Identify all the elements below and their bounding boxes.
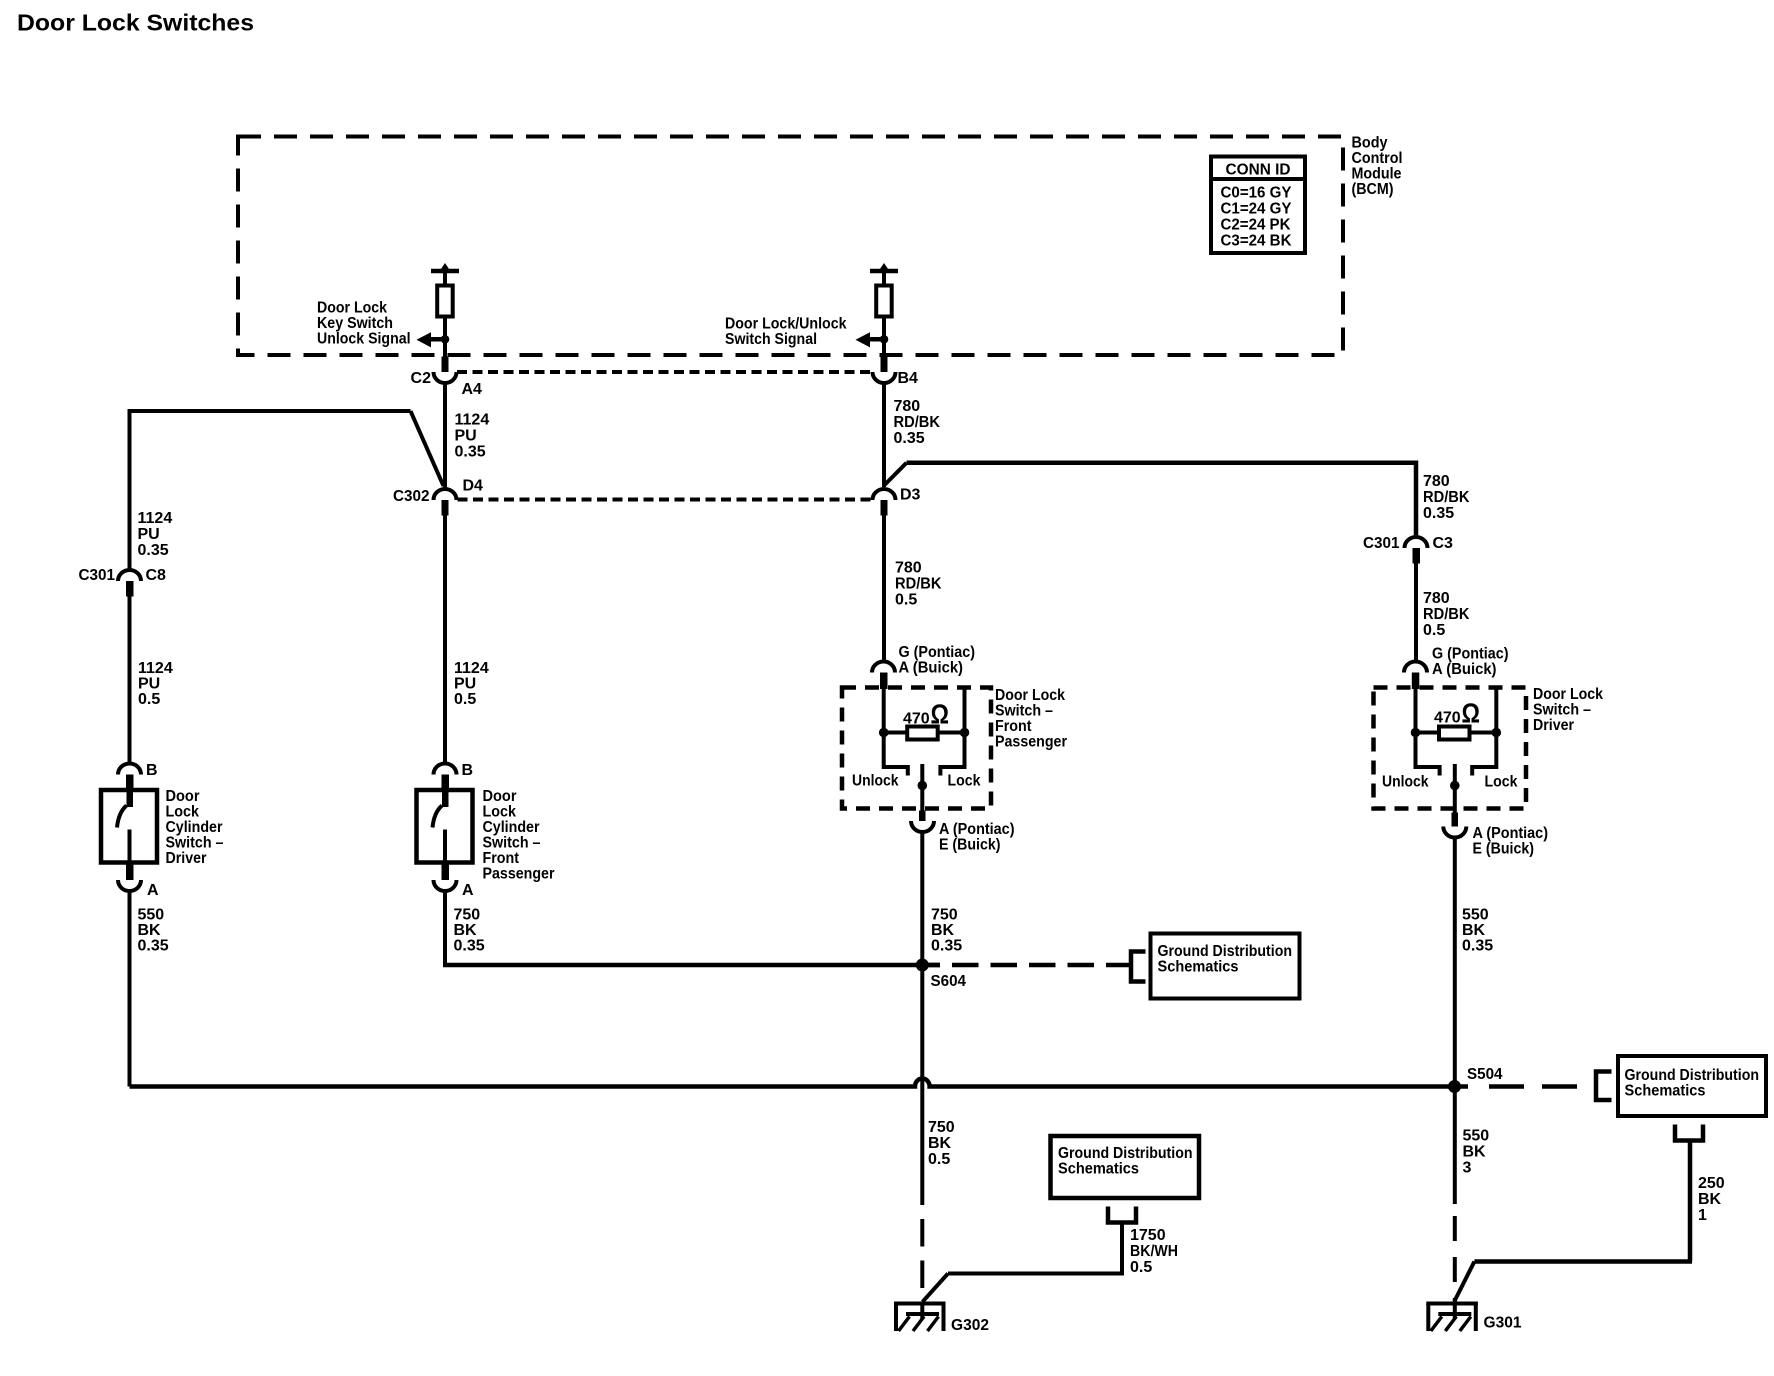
svg-text:PU: PU [455,428,477,445]
label: circuit 780 RD/BK 0.5 (middle column) [895,560,942,609]
wire: harness connector pass-through (dotted, bottom) [458,498,873,502]
svg-text:G301: G301 [1484,1315,1522,1332]
label: 470 ohm (driver switch) [1434,698,1480,729]
svg-text:470: 470 [1434,710,1461,727]
connector C2 pin B4 (BCM side) [873,357,919,388]
svg-text:Lock: Lock [948,773,981,790]
connector C302 pin D4 [393,478,483,516]
svg-text:1124: 1124 [455,412,490,429]
svg-text:Door Lock: Door Lock [995,687,1065,704]
splice S504 (junction dot) [1448,1066,1503,1093]
svg-text:0.35: 0.35 [138,542,169,559]
connector: passenger cylinder switch pin B [434,762,474,790]
svg-text:C2: C2 [411,370,432,387]
svg-text:Door: Door [483,788,517,805]
svg-text:0.35: 0.35 [1462,938,1493,955]
svg-text:C302: C302 [393,488,430,505]
svg-text:RD/BK: RD/BK [1423,489,1470,506]
svg-text:0.5: 0.5 [895,592,917,609]
svg-text:BK: BK [1463,1144,1487,1161]
svg-text:Switch –: Switch – [166,835,224,852]
svg-text:0.35: 0.35 [454,938,485,955]
ground G302 [894,1302,989,1335]
svg-text:A4: A4 [462,381,483,398]
svg-text:750: 750 [928,1119,955,1136]
svg-text:Schematics: Schematics [1625,1083,1706,1100]
label: circuit 250 BK 1 [1698,1175,1725,1224]
label: Door Lock Switch - Front Passenger [995,687,1067,751]
svg-text:A: A [462,882,474,899]
switch S1: Door Lock Cylinder Switch - Driver [101,790,157,864]
svg-text:E (Buick): E (Buick) [939,837,1001,854]
label: Door Lock Key Switch Unlock Signal [317,300,411,348]
svg-text:RD/BK: RD/BK [1423,606,1470,623]
label: Door Lock/Unlock Switch Signal [725,316,847,349]
svg-text:Module: Module [1352,166,1402,183]
wire: dashed reference from S604 to Ground Distribution Schematics [922,952,1145,982]
svg-text:Front: Front [995,718,1032,735]
label: Door Lock Cylinder Switch - Driver [166,788,224,867]
svg-text:Unlock: Unlock [852,773,899,790]
switch contacts: Unlock / Lock (driver) [1416,733,1497,814]
wire: 550 BK from driver switch A/E to splice S504 and below [1453,838,1457,1204]
svg-text:250: 250 [1698,1175,1725,1192]
wire: 550 BK from cylinder switch A to G302 ground run [128,891,132,1087]
connector C301 pin C8 [79,567,167,597]
svg-text:BK/WH: BK/WH [1130,1243,1178,1260]
svg-text:PU: PU [138,526,160,543]
resistor R2 (BCM internal, lock/unlock switch signal) [870,263,898,357]
connector: off-page connector below S504 Ground Distribution box [1454,1125,1703,1302]
wire: dashed 550 BK 3 from S504 down to ground G301 [1453,1216,1457,1319]
label: Unlock / Lock (driver) [1382,774,1518,791]
svg-text:BK: BK [1462,922,1486,939]
wire: ground bus from driver cylinder switch to S504 (with hop over 750 BK) [130,1079,1469,1087]
svg-text:C0=16 GY: C0=16 GY [1221,185,1292,202]
svg-text:0.5: 0.5 [928,1151,950,1168]
svg-text:Lock: Lock [483,804,517,821]
connector C301 pin C3 (right column) [1363,535,1453,564]
label: Unlock / Lock (passenger) [852,773,981,790]
svg-text:Passenger: Passenger [995,734,1067,751]
label: circuit 1124 PU 0.35 (upper middle) [455,412,490,461]
svg-text:Passenger: Passenger [483,866,555,883]
svg-text:RD/BK: RD/BK [895,576,942,593]
svg-text:470: 470 [903,711,930,728]
wire: harness connector pass-through (dotted, top) [457,370,872,374]
label: circuit 1124 PU 0.5 (left column) [138,660,173,708]
svg-text:Control: Control [1352,150,1403,167]
ground G301 [1426,1302,1478,1332]
svg-text:3: 3 [1463,1160,1472,1177]
svg-text:0.35: 0.35 [1423,505,1454,522]
svg-text:Driver: Driver [1533,717,1574,734]
svg-text:C8: C8 [146,567,167,584]
wire: 1124 PU from C301 C8 to cylinder switch B [128,596,132,764]
table: CONN ID [1211,157,1305,254]
label: circuit 550 BK 0.35 (left column) [138,907,169,955]
svg-text:C3: C3 [1433,535,1454,552]
svg-text:0.5: 0.5 [1130,1259,1152,1276]
svg-text:PU: PU [454,676,476,693]
svg-text:Key Switch: Key Switch [317,315,393,332]
svg-text:1124: 1124 [138,660,173,677]
svg-text:550: 550 [1463,1128,1490,1145]
svg-text:D3: D3 [900,487,921,504]
label: circuit 550 BK 3 [1463,1128,1490,1177]
svg-text:0.35: 0.35 [931,938,962,955]
svg-text:B: B [462,762,474,779]
svg-text:1124: 1124 [454,660,489,677]
connector: driver door lock switch pin G (Pontiac) / A (Buick) [1404,646,1509,690]
wire: 780 RD/BK from C2 B4 to C302 D3 [882,383,886,488]
box: Ground Distribution Schematics (S604 reference) [1151,934,1300,999]
svg-text:780: 780 [1423,473,1450,490]
wire: branch to driver door lock cylinder switch (horizontal + diagonal) [130,409,444,570]
svg-text:Lock: Lock [1485,774,1518,791]
resistor R4: 470 ohm (driver switch) [1411,689,1501,740]
svg-text:B: B [146,762,158,779]
svg-text:Unlock Signal: Unlock Signal [317,331,411,348]
wire: dashed reference from S504 to Ground Distribution Schematics [1489,1072,1612,1101]
svg-text:550: 550 [138,907,165,924]
svg-text:750: 750 [931,907,958,924]
svg-text:G (Pontiac): G (Pontiac) [899,644,976,661]
svg-text:BK: BK [931,922,955,939]
wire: 750 BK from passenger switch A/E to splice S604 and below [920,833,924,1206]
wire: 780 RD/BK from C301 C3 to driver door lock switch [1414,564,1418,663]
label: circuit 780 RD/BK 0.35 (right column) [1423,473,1470,522]
svg-text:C301: C301 [1363,535,1400,552]
wire: branch from D3 node to driver door lock switch (diagonal + horizontal + vertical) [885,461,1417,538]
svg-text:C2=24 PK: C2=24 PK [1221,217,1291,234]
wire: 1124 PU from C302 D4 to passenger cylinder switch B [443,513,447,764]
svg-text:Switch –: Switch – [1533,702,1591,719]
wire: 780 RD/BK from C302 D3 to passenger door lock switch [882,513,886,662]
connector: driver cylinder switch pin A [118,864,159,899]
svg-text:0.5: 0.5 [454,691,476,708]
svg-text:E (Buick): E (Buick) [1473,841,1535,858]
svg-text:G (Pontiac): G (Pontiac) [1432,646,1509,663]
svg-text:0.5: 0.5 [1423,622,1445,639]
svg-text:BK: BK [454,922,478,939]
svg-text:550: 550 [1462,907,1489,924]
svg-text:1750: 1750 [1130,1227,1166,1244]
svg-text:Door Lock Switches: Door Lock Switches [17,10,254,36]
connector: passenger door lock switch pin A (Pontiac) / E (Buick) [911,811,1015,854]
connector: passenger door lock switch pin G (Pontiac) / A (Buick) [872,644,975,689]
connector: off-page connector below middle Ground Distribution box [923,1207,1137,1302]
svg-text:Ground Distribution: Ground Distribution [1625,1067,1760,1084]
svg-text:0.35: 0.35 [894,430,925,447]
svg-text:0.35: 0.35 [455,444,486,461]
svg-text:A (Buick): A (Buick) [899,660,964,677]
svg-text:Door Lock/Unlock: Door Lock/Unlock [725,316,847,333]
wire: 1124 PU from C2 A4 to C302 D4 [443,383,447,489]
arrow: Door Lock Key Switch Unlock Signal [417,332,450,347]
svg-text:BK: BK [928,1135,952,1152]
connector C302 pin D3 [873,487,921,516]
arrow: Door Lock/Unlock Switch Signal [856,332,889,347]
svg-text:780: 780 [1423,590,1450,607]
svg-text:C3=24 BK: C3=24 BK [1221,233,1292,250]
svg-text:Switch –: Switch – [995,703,1053,720]
switch S3: Door Lock Switch - Front Passenger (dashed box) [842,688,991,809]
svg-text:Switch Signal: Switch Signal [725,331,817,348]
label: Body Control Module (BCM) [1352,135,1403,199]
wire: 750 BK from passenger cylinder switch A to splice S604 [443,891,940,965]
svg-text:BK: BK [138,922,162,939]
svg-text:(BCM): (BCM) [1352,181,1394,198]
splice S604 (junction dot) [916,959,966,991]
svg-text:Cylinder: Cylinder [483,819,540,836]
label: circuit 1124 PU 0.35 (left column) [138,510,173,559]
switch S4: Door Lock Switch - Driver (dashed box) [1374,688,1527,809]
box: Ground Distribution Schematics (S504 reference) [1618,1056,1766,1116]
svg-text:Ground Distribution: Ground Distribution [1158,943,1293,960]
svg-text:A: A [147,882,159,899]
svg-text:Schematics: Schematics [1058,1161,1139,1178]
label: circuit 780 RD/BK 0.35 (below B4) [894,398,941,447]
svg-text:780: 780 [894,398,921,415]
svg-text:Unlock: Unlock [1382,774,1429,791]
box: Ground Distribution Schematics (G302 reference) [1051,1136,1200,1198]
switch contacts: Unlock / Lock (passenger) [884,733,965,812]
svg-text:A (Buick): A (Buick) [1432,661,1497,678]
label: 470 ohm (passenger switch) [903,699,949,730]
svg-text:C1=24 GY: C1=24 GY [1221,201,1292,218]
svg-text:A (Pontiac): A (Pontiac) [939,821,1015,838]
svg-text:B4: B4 [898,370,919,387]
svg-text:G302: G302 [951,1317,989,1334]
svg-text:Body: Body [1352,135,1388,152]
svg-text:750: 750 [454,907,481,924]
label: circuit 750 BK 0.35 (below passenger cylinder switch) [454,907,485,955]
svg-text:S604: S604 [931,973,967,990]
svg-text:Door Lock: Door Lock [317,300,387,317]
svg-text:Cylinder: Cylinder [166,819,223,836]
label: circuit 780 RD/BK 0.5 (right column) [1423,590,1470,639]
label: Door Lock Switch - Driver [1533,686,1603,734]
svg-text:PU: PU [138,676,160,693]
svg-text:A (Pontiac): A (Pontiac) [1473,825,1549,842]
label: circuit 1124 PU 0.5 (middle column) [454,660,489,708]
svg-text:S504: S504 [1467,1066,1503,1083]
svg-text:1124: 1124 [138,510,173,527]
svg-text:0.35: 0.35 [138,938,169,955]
label: circuit 550 BK 0.35 (below driver door lock switch) [1462,907,1493,955]
svg-text:D4: D4 [463,478,484,495]
connector: driver cylinder switch pin B [118,762,158,790]
svg-text:RD/BK: RD/BK [894,414,941,431]
resistor R1 (BCM internal, key switch unlock signal) [431,263,459,357]
svg-text:Door: Door [166,788,200,805]
switch S2: Door Lock Cylinder Switch - Front Passenger [417,790,473,864]
svg-text:Ω: Ω [931,699,950,730]
svg-text:Front: Front [483,850,520,867]
svg-text:Schematics: Schematics [1158,959,1239,976]
label: circuit 750 BK 0.35 (below passenger door lock switch) [931,907,962,955]
svg-text:CONN ID: CONN ID [1226,162,1291,179]
svg-text:Ground Distribution: Ground Distribution [1058,1145,1193,1162]
connector: passenger cylinder switch pin A [434,864,475,899]
resistor R3: 470 ohm (passenger switch) [879,689,969,740]
svg-text:780: 780 [895,560,922,577]
svg-text:Door Lock: Door Lock [1533,686,1603,703]
connector C2 pin A4 (BCM side) [411,357,483,399]
svg-text:1: 1 [1698,1207,1707,1224]
svg-text:Driver: Driver [166,850,207,867]
connector: driver door lock switch pin A (Pontiac) / E (Buick) [1443,813,1548,858]
svg-text:Switch –: Switch – [483,835,541,852]
module U1: Body Control Module (BCM) dashed outline [238,137,1343,356]
label: circuit 1750 BK/WH 0.5 [1130,1227,1178,1276]
label: Door Lock Cylinder Switch - Front Passenger [483,788,555,883]
svg-text:0.5: 0.5 [138,691,160,708]
svg-text:Lock: Lock [166,804,200,821]
svg-text:BK: BK [1698,1191,1722,1208]
label: circuit 750 BK 0.5 [928,1119,955,1168]
wire: dashed 750 BK 0.5 from S604 run down to ground G302 [920,1219,924,1319]
svg-text:C301: C301 [79,567,116,584]
svg-text:Ω: Ω [1462,698,1481,729]
